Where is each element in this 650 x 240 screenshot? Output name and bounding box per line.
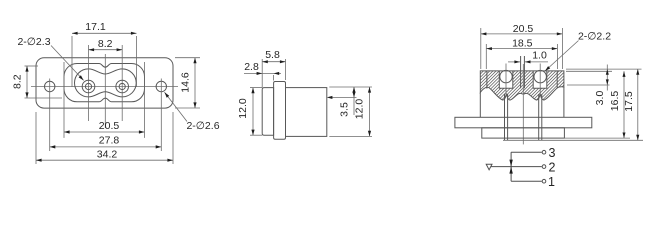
dim 12.0 left extension lines (250, 87, 262, 89)
pin right outer circle (116, 80, 129, 93)
svg-text:2-∅2.3: 2-∅2.3 (17, 36, 50, 48)
section pin 2 centerline (539, 64, 541, 96)
front view vertical centerline (104, 54, 106, 128)
pin left inner circle (85, 83, 91, 89)
schematic arrow lower (509, 167, 512, 174)
dim 8.2 left extension lines (25, 65, 39, 67)
dim 20.5 section extension lines (480, 28, 482, 69)
pin right inner circle (119, 83, 125, 89)
schematic pin 2 terminal circle (542, 165, 546, 169)
section view centerline (522, 64, 524, 144)
side view snout front part (262, 88, 273, 136)
section pin 1 circle (500, 70, 512, 82)
dim 17.5 dimension line (637, 69, 639, 140)
schematic pin 1 terminal circle (542, 179, 546, 183)
svg-text:8.2: 8.2 (12, 74, 24, 89)
schematic pin 1 lead (511, 180, 542, 182)
dim 18.5 extension lines (485, 44, 487, 69)
dim 1.0 dimension line with outside arrows (508, 61, 520, 63)
dim 5.8 extension lines (261, 59, 263, 87)
side view parting line pointer (332, 96, 357, 98)
svg-text:27.8: 27.8 (99, 135, 120, 147)
section hole 1 outline (499, 71, 513, 88)
svg-text:20.5: 20.5 (513, 23, 534, 35)
dim 18.5 dimension line (486, 48, 557, 50)
svg-text:1.0: 1.0 (532, 49, 547, 61)
dim 5.8 dimension line (262, 61, 285, 63)
dim 17.1 dimension line (72, 32, 137, 34)
dim 2.8 extension line (273, 75, 275, 81)
pin tip extension line (503, 139, 643, 141)
front view: mounting plate outline (36, 58, 173, 108)
pin 1 terminal tail (504, 94, 506, 140)
svg-text:1: 1 (548, 175, 555, 189)
dim 3.0 lower extension line (567, 84, 610, 86)
dim 8.2 top dimension line (89, 49, 123, 51)
svg-text:12.0: 12.0 (354, 99, 366, 120)
lower block bottom extension line (564, 137, 630, 139)
svg-text:3: 3 (549, 146, 556, 160)
schematic ground triangle (486, 164, 492, 170)
dim 3.5 dimension line (353, 87, 355, 115)
dim 27.8 dimension line (50, 146, 162, 148)
section body side walls to flange (479, 93, 481, 118)
dim 12.0 right dimension line (369, 87, 371, 136)
section inner wall lines (486, 71, 488, 89)
figure-8 recess inner face (75, 69, 137, 97)
svg-text:8.2: 8.2 (98, 38, 113, 50)
flange plate bar (455, 117, 592, 128)
svg-text:17.5: 17.5 (623, 91, 635, 112)
pin right centerline (121, 45, 123, 121)
figure-8 recess outer rim (64, 64, 145, 102)
pin 2 terminal tail (538, 94, 540, 140)
svg-text:14.6: 14.6 (180, 72, 192, 93)
dim 12.0 right extension lines (329, 86, 372, 88)
schematic bracket wire (510, 152, 512, 181)
side view flange plate (274, 82, 286, 140)
dim 2.8 dimension line with outside arrows (244, 72, 281, 74)
dim 14.6 extension lines (175, 57, 200, 59)
svg-text:2: 2 (549, 160, 556, 174)
svg-text:18.5: 18.5 (512, 37, 533, 49)
front view horizontal centerline (31, 86, 178, 88)
svg-text:2-∅2.6: 2-∅2.6 (186, 120, 219, 132)
svg-text:12.0: 12.0 (237, 98, 249, 119)
dim 16.5 dimension line (623, 71, 625, 138)
dim 34.2 extension lines (35, 112, 37, 164)
svg-text:17.1: 17.1 (85, 21, 106, 33)
section center rib lines (1.0) (520, 56, 522, 88)
schematic pin 3 terminal circle (542, 150, 546, 154)
dim 14.6 dimension line (194, 58, 196, 108)
mounting hole left (45, 81, 55, 91)
svg-text:3.0: 3.0 (594, 91, 606, 106)
pin left centerline (88, 45, 90, 121)
pin top extension line right (566, 68, 642, 70)
dim 20.5 front extension lines (63, 62, 65, 138)
dim 20.5 section dimension line (481, 33, 563, 35)
section view body outline (480, 71, 564, 100)
dim 12.0 left dimension line (252, 88, 254, 136)
side view main body (286, 88, 327, 137)
svg-text:2.8: 2.8 (244, 61, 259, 73)
body top extension line right (566, 70, 612, 72)
schematic arrow upper (509, 160, 512, 167)
mounting hole left centerline (49, 79, 51, 152)
section hole 2 outline (533, 71, 547, 88)
section pin 1 centerline (505, 64, 507, 96)
svg-text:5.8: 5.8 (265, 49, 280, 61)
schematic pin 2 lead (491, 166, 542, 168)
svg-text:16.5: 16.5 (609, 91, 621, 112)
dim 3.0 dimension line (606, 65, 608, 91)
dim 20.5 front dimension line (64, 131, 145, 133)
schematic pin 3 lead (511, 151, 542, 153)
mounting hole right centerline (160, 79, 162, 152)
section pin 2 circle (534, 70, 546, 82)
mounting hole right (156, 81, 166, 91)
dim 8.2 left dimension line (26, 66, 28, 98)
dim 34.2 dimension line (36, 159, 173, 161)
svg-text:20.5: 20.5 (99, 120, 120, 132)
svg-text:3.5: 3.5 (339, 102, 351, 117)
svg-text:2-∅2.2: 2-∅2.2 (578, 30, 611, 42)
dim 17.1 extension lines (71, 36, 73, 87)
svg-text:34.2: 34.2 (97, 148, 118, 160)
lower body block (482, 128, 565, 138)
pin left outer circle (82, 80, 95, 93)
